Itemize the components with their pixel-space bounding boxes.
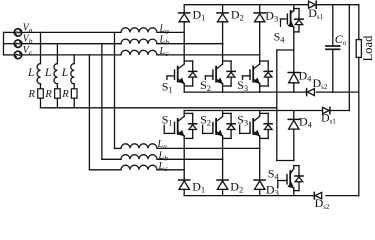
load resistor	[358, 5, 360, 40]
svg-text:L: L	[61, 67, 68, 79]
neutral wire (star point to fourth legs)	[276, 50, 278, 161]
wire S4 emitter down	[293, 32, 295, 50]
wire L-R (branch 1)	[40, 84, 42, 89]
diode D4 (bottom)	[293, 111, 295, 120]
svg-text:R: R	[61, 89, 69, 100]
svg-text:S2: S2	[200, 113, 211, 128]
diode Ds2 (bottom, series return)	[313, 192, 315, 198]
source star-point bus	[3, 32, 5, 55]
wire S2 bottom emitter to junction	[222, 138, 224, 159]
wire tap phase b down	[101, 44, 103, 160]
svg-text:D4: D4	[299, 69, 313, 84]
wire bottom Lc to leg1	[157, 169, 184, 171]
igbt S2 (bottom)	[222, 113, 224, 116]
inductor L (branch 1)	[37, 64, 40, 84]
riser to positive bus	[348, 5, 350, 111]
inductor La (top)	[121, 28, 157, 33]
wire L-R (branch 3)	[73, 84, 75, 89]
diode D3 (bottom)	[259, 148, 261, 179]
svg-text:D1: D1	[192, 180, 205, 195]
inductor La (bottom)	[121, 144, 157, 149]
wire tap phase c down	[88, 55, 90, 170]
svg-text:Ds2: Ds2	[315, 196, 330, 210]
svg-text:S2: S2	[200, 78, 211, 93]
bottom converter positive rail	[184, 110, 322, 112]
ac source Vb	[14, 40, 22, 48]
svg-text:D1: D1	[193, 7, 206, 22]
wire S3 bottom emitter to junction	[259, 138, 261, 148]
svg-text:Lb: Lb	[159, 35, 170, 47]
wire branch 3 drop	[73, 55, 75, 64]
negative bus after Ds2	[316, 91, 359, 93]
wire S1 emitter to rail	[183, 86, 185, 92]
inductor Lb (bottom)	[121, 155, 157, 160]
wire branch 1 drop	[40, 32, 42, 63]
igbt S4 (top)	[293, 9, 295, 12]
capacitor Co	[332, 5, 334, 46]
svg-text:Load: Load	[361, 35, 375, 61]
svg-text:S4: S4	[274, 29, 286, 44]
igbt S3 (top)	[259, 61, 261, 64]
top converter negative rail	[184, 91, 306, 93]
diode D1 (bottom)	[183, 170, 185, 180]
wire leg2 junction to S2 collector	[222, 44, 224, 61]
diode D3 (top)	[259, 5, 261, 13]
top positive rail	[184, 4, 359, 6]
svg-text:R: R	[44, 89, 52, 100]
resistor R (branch 2)	[55, 89, 61, 98]
wire Lc to leg3	[157, 54, 260, 56]
wire phase a	[22, 31, 121, 33]
diode D4 (top)	[293, 50, 295, 72]
wire S1 bottom collector	[183, 111, 185, 114]
wire S4 collector from top rail	[293, 5, 295, 9]
bottom rail	[184, 195, 314, 197]
wire phase b from bus	[4, 43, 15, 45]
svg-text:S3: S3	[237, 78, 248, 93]
wire R to star rail (branch 2)	[56, 98, 58, 108]
wire bottom La to leg3	[157, 147, 260, 149]
wire leg1 junction to S1 collector	[183, 32, 185, 61]
resistor R (branch 1)	[38, 89, 44, 98]
diode Ds1 (bottom, series output)	[323, 107, 330, 113]
igbt S4 (bottom)	[293, 166, 295, 169]
wire S2 emitter to rail	[222, 86, 224, 92]
svg-text:L: L	[27, 67, 34, 79]
inductor L (branch 3)	[71, 64, 74, 84]
svg-text:S1: S1	[162, 113, 173, 128]
svg-text:Ds1: Ds1	[308, 6, 323, 21]
diode D1 (top)	[183, 5, 185, 13]
svg-text:S3: S3	[237, 113, 248, 128]
svg-text:Lc: Lc	[158, 161, 169, 173]
star rail (damping network)	[41, 107, 277, 109]
svg-text:S1: S1	[162, 80, 173, 95]
wire branch 2 drop	[56, 44, 58, 64]
inductor L (branch 2)	[54, 64, 57, 84]
bottom rail after Ds2	[326, 195, 359, 197]
diode D2 (bottom)	[222, 159, 224, 179]
wire bottom Lb to leg2	[157, 158, 223, 160]
ac source Vc	[14, 51, 22, 59]
igbt S2 (top)	[222, 61, 224, 64]
wire phase a from bus	[4, 31, 15, 33]
svg-text:D3: D3	[265, 9, 278, 24]
svg-text:La: La	[157, 139, 168, 151]
igbt S3 (bottom)	[259, 113, 261, 116]
wire leg3 junction to S3 collector	[259, 55, 261, 61]
wire load bottom riser	[358, 92, 360, 196]
wire tap phase a down	[114, 32, 116, 148]
svg-text:S4: S4	[268, 167, 280, 182]
wire Lb to leg2	[157, 43, 223, 45]
wire L-R (branch 2)	[56, 84, 58, 89]
resistor R (branch 3)	[71, 89, 77, 98]
igbt S1 (bottom)	[183, 113, 185, 116]
wire S3 emitter to rail	[259, 86, 261, 92]
svg-text:Lc: Lc	[159, 46, 170, 58]
igbt S1 (top)	[183, 61, 185, 64]
inductor Lb (top)	[121, 39, 157, 44]
diode D2 (top)	[222, 5, 224, 13]
diode Ds1 (top, series output)	[309, 1, 316, 8]
svg-text:Ds1: Ds1	[321, 110, 336, 125]
inductor Lc (top)	[121, 50, 157, 55]
svg-text:La: La	[159, 23, 170, 35]
svg-text:D2: D2	[231, 7, 244, 22]
svg-text:D2: D2	[230, 180, 243, 195]
wire phase c	[22, 54, 121, 56]
svg-text:Co: Co	[335, 32, 347, 47]
wire R to star rail (branch 3)	[73, 98, 75, 108]
wire S1 bottom emitter to junction	[183, 138, 185, 169]
wire phase c from bus	[4, 54, 15, 56]
wire La to leg1	[157, 31, 184, 33]
diode Ds2 (top, series return)	[306, 89, 308, 96]
wire S4 bottom emitter to rail	[293, 191, 295, 196]
svg-text:D4: D4	[299, 115, 313, 130]
inductor Lc (bottom)	[121, 165, 157, 170]
svg-text:Ds2: Ds2	[313, 76, 328, 91]
wire neutral branch at S4 emitter	[277, 49, 294, 51]
ac source Va	[14, 29, 22, 37]
svg-text:R: R	[28, 89, 36, 100]
wire phase b	[22, 43, 121, 45]
svg-text:L: L	[44, 67, 51, 79]
wire neutral branch to S4 bottom	[277, 160, 294, 162]
wire S3 bottom collector	[259, 111, 261, 114]
wire R to star rail (branch 1)	[40, 98, 42, 108]
wire S2 bottom collector	[222, 111, 224, 114]
wire Ds1 to riser	[331, 110, 349, 112]
